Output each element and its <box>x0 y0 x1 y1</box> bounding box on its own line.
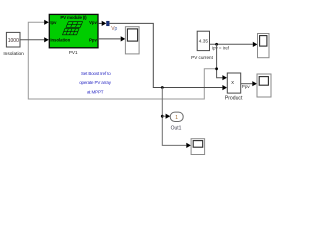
outport Out1 <box>170 112 183 121</box>
wire: PV current output to scope <box>210 43 253 45</box>
svg-text:PV1: PV1 <box>69 50 78 55</box>
constant block Insolation (1000) <box>6 32 20 47</box>
scope Vpv/Ppv (middle) <box>125 27 139 54</box>
svg-text:Set Boost Iref to: Set Boost Iref to <box>81 71 111 76</box>
svg-text:4.35: 4.35 <box>199 38 209 44</box>
svg-text:Ipv = Iref: Ipv = Iref <box>212 46 230 51</box>
arrow into Iref scope <box>253 42 258 47</box>
goto tag Vp (small blue block) <box>107 21 110 26</box>
junction on Iref wire <box>215 43 218 46</box>
junction for feedback branch <box>215 67 218 70</box>
arrow into bottom scope <box>186 143 191 148</box>
scope Ppv (lower right) <box>257 74 271 97</box>
svg-text:at MPPT: at MPPT <box>87 90 104 95</box>
arrow into Insolation input <box>44 37 49 42</box>
annotation: Set Boost Iref to operate PV array at MPPT <box>79 71 112 94</box>
junction on Vpv wire <box>161 86 164 89</box>
svg-text:operate PV array: operate PV array <box>79 80 112 85</box>
arrow into Vp tag <box>102 21 107 26</box>
svg-text:PV module (I): PV module (I) <box>60 15 87 20</box>
svg-text:Ipv: Ipv <box>50 20 57 25</box>
wire: 1000 to Insolation input <box>20 39 44 41</box>
svg-text:Insolation: Insolation <box>50 38 70 43</box>
svg-text:Vp: Vp <box>111 26 117 32</box>
scope Iref (top right) <box>258 34 270 58</box>
svg-text:Product: Product <box>225 96 243 102</box>
solar panel icon <box>63 22 83 35</box>
svg-text:Ppv: Ppv <box>242 84 251 89</box>
wire: Vpv branch down to Out1 and Scope <box>162 88 186 146</box>
wire: branch to Out1 <box>162 115 165 117</box>
svg-text:Ppv: Ppv <box>89 38 97 43</box>
svg-text:1000: 1000 <box>8 38 19 44</box>
PV module block PV1 <box>49 14 98 47</box>
arrow into Ipv input <box>44 20 49 25</box>
scope Vp (bottom) <box>191 139 205 155</box>
arrow into Product top input <box>222 75 227 80</box>
svg-text:Out1: Out1 <box>171 125 182 131</box>
arrow into Product bottom input <box>222 85 227 90</box>
svg-text:Vpv: Vpv <box>89 20 97 25</box>
wire: Ppv output of PV1 to scope <box>98 38 121 40</box>
wire: Vpv output to tag <box>98 22 102 24</box>
arrow into Ppv scope <box>121 36 126 41</box>
wire: feedback Iref to Ipv (long light wire) <box>28 22 216 99</box>
svg-text:PV current: PV current <box>191 55 213 60</box>
svg-text:Insolation: Insolation <box>3 51 24 57</box>
svg-text:1: 1 <box>175 115 178 121</box>
wire: Product output to scope <box>241 83 253 85</box>
wire: Iref down to Product top input <box>217 44 223 77</box>
junction at Out1 branch <box>161 115 164 118</box>
arrow into Out1 <box>166 114 171 119</box>
arrow into Ppv scope (lower right) <box>252 81 257 86</box>
svg-text:x: x <box>231 80 234 86</box>
wire: Vpv across top, down and to Product bottom input <box>110 23 223 87</box>
constant block PV current (4.35) <box>197 31 209 50</box>
product block <box>227 73 240 93</box>
